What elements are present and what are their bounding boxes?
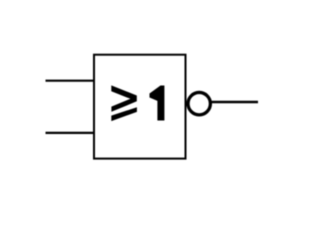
qualifier symbol "≥"	[111, 85, 137, 121]
gate U1 body (IEC OR-qualifier box)	[94, 55, 186, 159]
input wire A	[46, 80, 95, 82]
input wire B	[46, 132, 95, 134]
inversion bubble at output	[188, 92, 210, 114]
output wire Y	[211, 101, 258, 103]
qualifier digit "1"	[150, 86, 165, 121]
